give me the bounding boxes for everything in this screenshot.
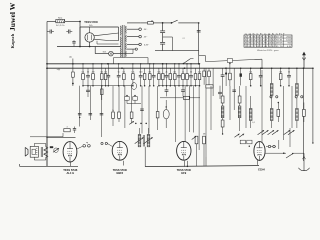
resistor R25 at x=199.5 [198, 63, 201, 86]
IF T2 trimmer arrows [135, 137, 153, 143]
IF transformer T2 coil b [147, 128, 150, 147]
tube V5 ECH4 [254, 142, 265, 161]
capacitor C26 at x=191.0 [189, 63, 193, 86]
trimmer capacitor CT1 [258, 130, 269, 135]
resistor R12 at x=144.6 [143, 68, 146, 86]
top cluster box b [133, 95, 138, 100]
resistor R1 on B+ line [140, 20, 162, 24]
IF transformer T2 core [143, 135, 144, 147]
svg-text:1M: 1M [249, 72, 252, 74]
wire rectifier loop left [79, 27, 81, 47]
capacitor C31 [165, 86, 169, 97]
svg-text:24 18 65 27 03 48 16 52 70 31: 24 18 65 27 03 48 16 52 70 31 [245, 40, 284, 42]
svg-text:ECH4: ECH4 [258, 169, 265, 172]
svg-text:1k: 1k [112, 110, 114, 112]
label switch "a" [57, 69, 61, 71]
grid resistor R26 [192, 136, 198, 144]
wire vertical x213 [212, 68, 214, 96]
terminals T3 top [270, 96, 278, 99]
capacitor C42 [100, 114, 104, 115]
svg-text:41 86 52 70 32 95 24 60 18 65: 41 86 52 70 32 95 24 60 18 65 [245, 43, 284, 45]
label rectifier "DG." [89, 25, 93, 27]
voltage table [244, 34, 292, 48]
svg-text:S.B.: S.B. [103, 51, 107, 53]
trimmer capacitor CT2 [268, 130, 279, 135]
label tap 4 "6,3V~" [144, 44, 150, 46]
svg-text:250V: 250V [286, 37, 292, 39]
capacitor C2b [72, 40, 75, 46]
svg-text:50k: 50k [157, 72, 160, 74]
coil L1 chain [221, 103, 224, 118]
svg-text:0,5: 0,5 [100, 72, 103, 74]
capacitor C41 [89, 114, 93, 115]
wire vertical [283, 86, 285, 140]
terminal V2 a [77, 145, 86, 150]
resistor R23 [118, 112, 121, 118]
bus A (B+ rail) [47, 63, 199, 65]
wire secondary tap 5 [127, 48, 137, 50]
svg-text:0,1: 0,1 [252, 122, 255, 124]
resistor R24 at x=195.5 [194, 68, 197, 86]
resistor R16 at x=162.8 [162, 63, 165, 86]
capacitor C40 [78, 114, 82, 119]
svg-text:a(v): a(v) [57, 69, 61, 71]
label rail "AW" [0, 0, 1, 1]
label V3 line2 [116, 171, 123, 175]
wire V3 cathode [122, 161, 124, 166]
rectifier tube V1 [85, 27, 94, 42]
wire vertical [79, 86, 81, 127]
wire V5 cathode [257, 160, 259, 165]
IF transformer T3 coil b [270, 98, 273, 128]
capacitor C20 at x=166.5 [165, 63, 169, 86]
resistor R15 at x=158.9 [157, 68, 160, 86]
wire vertical [131, 86, 133, 124]
label Dir [252, 122, 255, 124]
bus B (heater/chassis rail) [47, 67, 314, 69]
top cluster box a [125, 95, 130, 100]
capacitor C1 line filter [47, 30, 54, 34]
svg-text:32 41 86 52 70 31 95 24 60 18: 32 41 86 52 70 31 95 24 60 18 [245, 37, 284, 39]
antenna A1 [302, 52, 306, 69]
svg-text:DG.: DG. [89, 25, 93, 27]
wire lamp left [95, 53, 109, 55]
damping resistor T3 [277, 102, 280, 122]
wire vertical [118, 86, 120, 122]
svg-text:EF9: EF9 [181, 171, 186, 175]
resistor R21 at x=183.0 [182, 68, 185, 86]
wire secondary tap 2 [127, 28, 141, 31]
label tap 2 "4V~" [144, 29, 148, 31]
fuse/plug F1 [56, 20, 65, 23]
wire vertical [188, 86, 190, 132]
resistor R29 at x=280.7 [279, 68, 282, 86]
svg-text:2M: 2M [92, 72, 95, 74]
wire AF out [265, 152, 286, 154]
speaker cone [25, 147, 28, 156]
capacitor C32 [181, 86, 185, 97]
transformer T1 secondary winding a [125, 26, 127, 34]
resistor R19 at x=174.8 [173, 63, 176, 86]
coupling boxes left of V5 [240, 140, 252, 147]
title text "Juwel W" [8, 2, 17, 31]
junction dots mid row [135, 123, 147, 125]
resistor R5 at x=101.8 [100, 63, 103, 86]
wire vertical [89, 86, 91, 120]
svg-text:0,3: 0,3 [148, 72, 151, 74]
wire filter L-link [163, 37, 173, 51]
capacitor C14 at x=140.7 [139, 63, 143, 86]
capacitor C10 at x=108.3 [106, 63, 110, 86]
IF transformer T4 coil b [296, 98, 299, 128]
oscillator coil can [163, 100, 169, 128]
terminal V5 a [266, 145, 276, 147]
svg-text:95V: 95V [287, 43, 291, 45]
wire link row mid [159, 85, 200, 87]
resistor R9 at x=123.9 [123, 68, 126, 86]
label rectifier "TKSS 5/546" [84, 21, 98, 24]
label V4 line2 [181, 171, 186, 175]
coil L3 [249, 96, 252, 128]
resistor R13 at x=149.8 [148, 63, 151, 86]
transformer T1 secondary winding d [125, 51, 127, 57]
svg-text:5k: 5k [118, 72, 120, 74]
capacitor C33 at x=289.0 [287, 68, 291, 86]
svg-text:1k: 1k [182, 72, 184, 74]
wire rectifier loop right [118, 27, 120, 41]
wire OT top link [46, 137, 75, 138]
wire rectifier cathode drop [89, 42, 91, 47]
svg-text:6,3V~: 6,3V~ [144, 44, 150, 46]
svg-text:18 65 27 03 24 48 16 52 31 70: 18 65 27 03 24 48 16 52 31 70 [245, 46, 284, 48]
wire secondary tap 1 [127, 22, 140, 24]
svg-text:Netz: Netz [58, 16, 62, 19]
label V2 line1 [63, 168, 78, 172]
transformer T1 core [123, 25, 124, 57]
junction blob x226 [225, 68, 227, 86]
wire lamp right [113, 53, 121, 55]
svg-text:0,1: 0,1 [82, 72, 85, 74]
box between buses [227, 59, 232, 69]
top-cap connector [131, 83, 136, 90]
lamp LP1 [109, 51, 114, 56]
svg-text:TKSS 5/546: TKSS 5/546 [84, 21, 98, 24]
junction B+ node [162, 22, 164, 24]
wire drops to AF switch [279, 128, 290, 149]
wire stub coil feeds [272, 68, 297, 83]
label lamp "S.B." [103, 51, 107, 53]
coil L2 chain [238, 103, 241, 131]
tube V4 EF9 [177, 141, 191, 160]
box chain x222 [221, 118, 224, 135]
wire osc link bracket [114, 58, 149, 64]
title text "Kapsch" [10, 33, 15, 48]
component K25 at x=240.7 [240, 68, 242, 85]
junction mains bottom [79, 21, 81, 48]
capacitor C3 filter [160, 23, 165, 42]
capacitor C30 [86, 86, 90, 97]
output transformer winding [44, 147, 48, 158]
chassis rail mid segment [145, 166, 259, 167]
wire lamp left drop [94, 47, 96, 54]
resistor R20 [101, 86, 104, 100]
wire V2 cathode [69, 162, 71, 167]
resistor R31 mid [229, 68, 232, 86]
wire vertical [245, 86, 247, 128]
svg-text:eg: eg [86, 142, 88, 144]
svg-text:0,1: 0,1 [173, 72, 176, 74]
resistor R4 at x=93.0 [92, 63, 95, 86]
tone trimmer [53, 148, 59, 152]
wire vertical [112, 86, 114, 126]
wire vertical [157, 86, 159, 130]
label tap 3 "4V~" [144, 37, 148, 39]
svg-text:4: 4 [66, 127, 67, 129]
wire filter bottom run [155, 50, 199, 52]
capacitor C31 at x=260.7 [259, 68, 263, 86]
svg-text:1M: 1M [104, 72, 107, 74]
resistor R22 [112, 110, 115, 119]
tone capacitor C36 [50, 146, 53, 147]
wire T2 to rail [144, 147, 146, 167]
svg-text:0,3: 0,3 [279, 72, 282, 74]
wire speaker top [34, 144, 46, 147]
svg-text:Kapsch: Kapsch [10, 33, 15, 48]
wire mains right drop [79, 22, 81, 47]
capacitor C4 filter [160, 42, 165, 50]
wire mains bottom run [57, 46, 121, 48]
wire rectifier anode lead lower [94, 39, 119, 40]
IF transformer T3 coil a [270, 84, 273, 96]
grid network caps [73, 127, 76, 134]
wire V4 cathode [184, 161, 186, 167]
wire secondary tap 4 [127, 43, 141, 46]
tube V3 EBF2 [112, 141, 127, 160]
wire speaker bottom [34, 157, 46, 160]
trimmer capacitor CT3 [284, 130, 295, 135]
wire vertical [198, 86, 200, 150]
resistor R6 at x=105.6 [104, 68, 107, 86]
wire OT to chassis [46, 137, 48, 166]
resistor R28 [156, 112, 159, 118]
wire rectifier loop top [80, 26, 119, 28]
wire cluster link [127, 100, 141, 103]
resistor R21 [160, 96, 200, 99]
switch S3 band [183, 59, 194, 65]
wire vertical [291, 86, 293, 128]
junction bus A/B crossings [107, 63, 314, 69]
transformer T1 primary winding c [120, 47, 122, 57]
capacitor C17 at x=153.7 [152, 63, 156, 86]
svg-text:50: 50 [87, 72, 89, 74]
wire vertical [229, 86, 231, 120]
wire B+ arrow [186, 22, 199, 24]
svg-text:Juwel W: Juwel W [8, 2, 17, 31]
capacitor C44 mid [221, 68, 225, 86]
capacitor C11 at x=118.7 [117, 63, 121, 86]
wire vertical [141, 86, 143, 134]
ground symbol (lightning arrester) [298, 153, 309, 170]
resistor R24 [129, 112, 134, 124]
wire rail up 206 [205, 157, 207, 166]
wire heater link [97, 41, 119, 44]
svg-text:Si 1,2 Oh: Si 1,2 Oh [56, 25, 64, 27]
right edge vertical [312, 68, 313, 144]
wire mains top right [65, 21, 80, 23]
IF transformer T2 coil a [138, 128, 141, 147]
svg-text:100: 100 [139, 72, 142, 74]
capacitor C23 at x=179.0 [177, 63, 181, 86]
wire vertical [174, 86, 176, 142]
label "(d)" [69, 57, 72, 59]
resistor R29 chain [221, 86, 224, 103]
resistor R2 at x=83.0 [82, 63, 85, 86]
wire vertical [101, 86, 103, 137]
volume potentiometer arrow [286, 153, 304, 158]
wire mains top left [47, 21, 56, 23]
label mains "Si 1,2 Oh" [56, 25, 64, 27]
svg-text:Werte bei 220V~ gem.: Werte bei 220V~ gem. [257, 49, 279, 52]
transformer T1 primary winding b [120, 37, 122, 47]
speaker frame [30, 146, 38, 157]
svg-text:100V: 100V [286, 40, 292, 42]
wire vertical [124, 86, 126, 128]
label V5 [258, 169, 265, 172]
transformer T1 secondary winding b [125, 35, 127, 43]
resistor R22 at x=187.0 [186, 63, 189, 86]
svg-text:10k: 10k [131, 72, 134, 74]
transformer T1 secondary winding c [125, 43, 127, 51]
capacitor C2 line filter [66, 30, 72, 34]
wire B+ vertical drop [197, 22, 201, 50]
grid network box [64, 127, 70, 132]
label V3 line1 [113, 168, 128, 172]
label mains "Netz" [58, 16, 62, 19]
wire link row left [83, 85, 133, 87]
label B+ "+a" [182, 37, 185, 39]
damping resistor T4 [303, 103, 306, 123]
wire vertical [210, 86, 212, 130]
svg-text:2k: 2k [166, 72, 168, 74]
svg-text:50: 50 [288, 72, 290, 74]
antenna lead-in vertical [303, 68, 305, 161]
capacitor C45 [232, 90, 236, 91]
wire vertical [184, 86, 186, 142]
label V2 line2 [66, 171, 74, 175]
wire vertical x234 [233, 68, 235, 110]
wire mains left conductor [46, 22, 48, 64]
svg-text:0,2: 0,2 [198, 72, 201, 74]
wire transformer to lamp [121, 49, 133, 54]
wire vertical [193, 86, 195, 133]
resistor R10 at x=132.9 [131, 63, 134, 86]
switch S1 mains [163, 20, 186, 24]
wire vertical [148, 86, 150, 134]
terminals T4 top [295, 96, 303, 98]
grid resistor R27 [203, 133, 206, 143]
wire grid row [30, 133, 63, 137]
transformer T1 primary winding a [120, 26, 122, 36]
resistor R32 [203, 68, 206, 85]
svg-text:0,1: 0,1 [123, 72, 126, 74]
capacitor C43 [140, 109, 144, 110]
capacitor C6 at x=88.0 [86, 68, 90, 86]
terminal V2 b [86, 142, 90, 147]
svg-text:6,3V: 6,3V [287, 46, 292, 48]
wire top link C drop [198, 56, 200, 64]
resistor R33 [208, 68, 211, 85]
resistor R30 chain [238, 86, 241, 103]
wire vertical [261, 70, 263, 143]
wire B+ feed drop [198, 51, 200, 56]
svg-text:(d): (d) [69, 57, 72, 59]
junction rail mid [187, 161, 189, 167]
chassis rail left segment [20, 164, 79, 166]
svg-text:AL4 G: AL4 G [66, 171, 74, 175]
capacitor C33 [218, 86, 222, 99]
switch S2 wave change [72, 59, 75, 87]
wire secondary tap 3 [127, 35, 141, 38]
left vertical bus [46, 63, 48, 166]
svg-text:EBF2: EBF2 [116, 171, 123, 175]
wire top link A [199, 56, 206, 62]
wire top link B [206, 59, 262, 68]
resistor R27 at x=250.7 [249, 68, 252, 86]
resistor R34 horizontal [206, 85, 213, 88]
label table caption [257, 49, 279, 52]
IF transformer T4 coil a [296, 84, 299, 96]
wire grid link [197, 144, 205, 167]
label V4 line1 [177, 168, 192, 172]
tube V2 output AL4 [63, 142, 77, 162]
output transformer core [41, 147, 42, 157]
wire vertical x206 [205, 68, 207, 157]
svg-text:30: 30 [190, 72, 192, 74]
terminal V3 left [101, 142, 113, 146]
trimmer arrows x238 [235, 134, 245, 138]
wire rectifier anode lead upper [94, 33, 119, 36]
resistor R18 at x=170.3 [169, 68, 172, 86]
